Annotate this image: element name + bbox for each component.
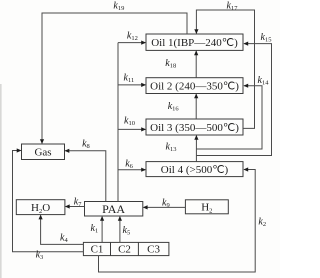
wire k17: Oil3 right -> Oil1 top xyxy=(194,10,254,128)
wire k6: PAA -> Oil4 left xyxy=(118,168,146,172)
box Oil 2 xyxy=(146,78,243,94)
wire k19: Oil1 top -> Gas top xyxy=(40,13,187,144)
wire k18: Oil2 top -> Oil1 bottom xyxy=(194,50,198,77)
wire k10: PAA -> Oil3 left xyxy=(118,127,146,131)
box PAA xyxy=(85,202,143,217)
box Gas xyxy=(22,144,65,160)
scan edge artifact left xyxy=(0,84,2,278)
box Oil 3 xyxy=(146,119,243,135)
wire k9: H2 left -> PAA right xyxy=(143,205,186,209)
svg-text:Oil 1(IBP—240℃): Oil 1(IBP—240℃) xyxy=(151,37,238,49)
wire k8: PAA top -> Gas right xyxy=(65,149,106,202)
svg-text:Oil 2 (240—350℃): Oil 2 (240—350℃) xyxy=(150,81,239,93)
svg-text:PAA: PAA xyxy=(102,202,125,216)
box C1 C2 C3 xyxy=(83,242,168,255)
box H2O xyxy=(16,200,65,216)
wire k3: C box left -> Gas left xyxy=(13,148,84,251)
svg-text:Gas: Gas xyxy=(34,147,51,159)
svg-text:C1: C1 xyxy=(91,244,104,256)
box H2 xyxy=(185,200,228,215)
wire k2: C1 bottom -> Oil4 right xyxy=(99,167,256,272)
wire k4: C box left -> H2O bottom xyxy=(39,215,84,245)
wire k1: C1 top -> PAA bottom xyxy=(100,216,104,242)
wire k7: PAA left -> H2O right xyxy=(65,204,85,208)
wire k15: branch -> Oil1 right xyxy=(196,42,271,156)
wire k12: PAA -> Oil1 left xyxy=(118,41,146,45)
wire k13: Oil4 top -> Oil3 bottom xyxy=(194,135,198,162)
wire k16: Oil3 top -> Oil2 bottom xyxy=(194,94,198,120)
svg-text:C3: C3 xyxy=(147,244,160,256)
wire k11: PAA -> Oil2 left xyxy=(118,83,146,87)
wire k14: branch -> Oil2 right xyxy=(196,84,262,149)
svg-text:C2: C2 xyxy=(118,244,131,256)
svg-text:Oil 3 (350—500℃): Oil 3 (350—500℃) xyxy=(150,122,239,134)
box Oil 1 xyxy=(146,34,243,50)
wire k5: C2 top -> PAA bottom xyxy=(118,216,122,242)
box Oil 4 xyxy=(146,162,243,177)
wire PAA main riser xyxy=(117,43,119,202)
svg-text:Oil 4 (>500℃): Oil 4 (>500℃) xyxy=(161,164,229,176)
